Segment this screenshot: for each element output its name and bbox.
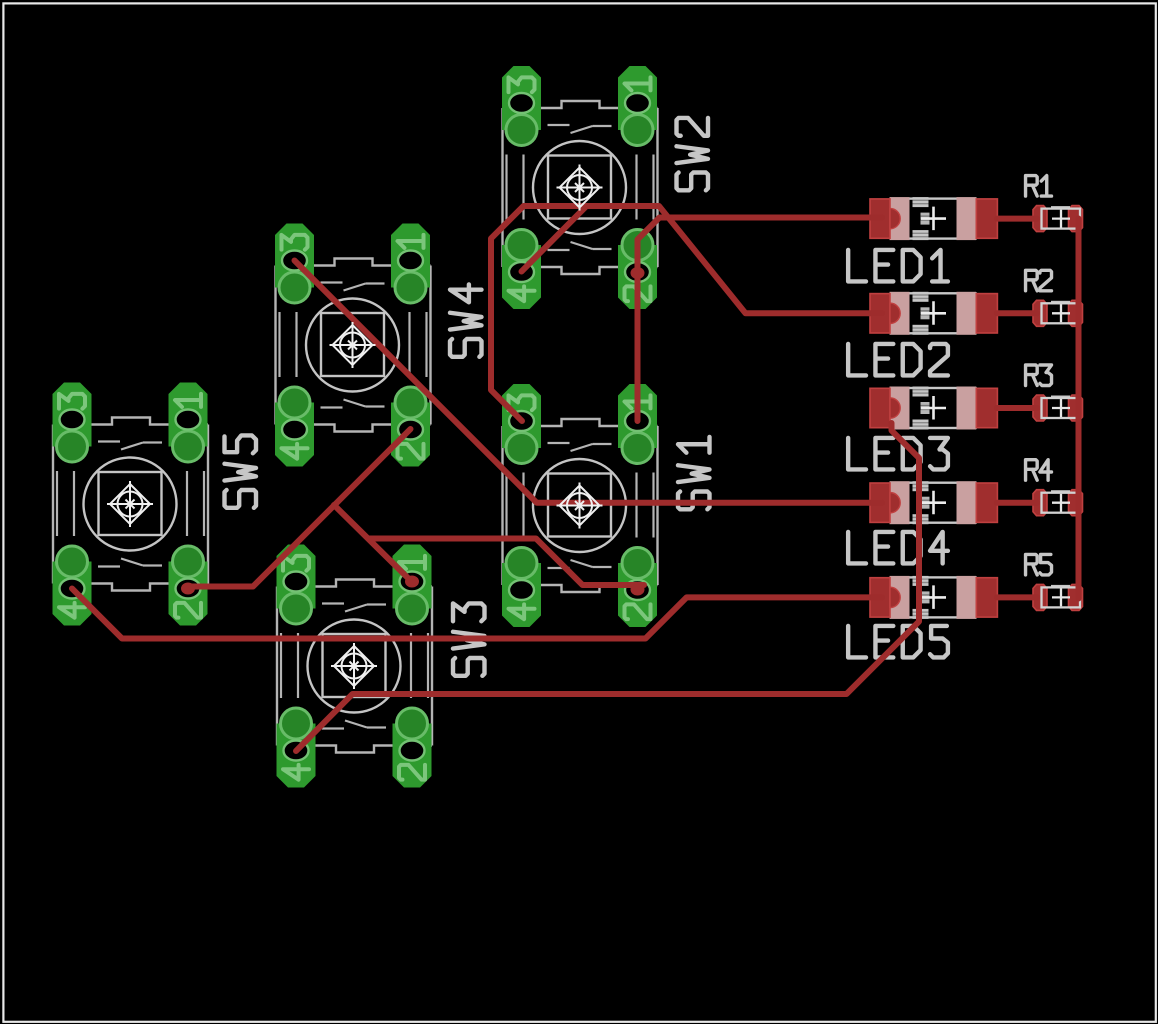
SW4 origin cross: [330, 322, 376, 368]
switch SW3 footprint (pads 1-4): [277, 545, 433, 788]
resistor R3 footprint: [1033, 395, 1083, 421]
label LED1: [848, 250, 948, 282]
wire SW5.4 diag to y638 horizontal, jog up to LED5: [72, 589, 882, 639]
label LED4: [848, 532, 948, 564]
label SW5: [225, 435, 257, 507]
resistor R4 footprint: [1033, 490, 1083, 516]
SW2 origin cross: [557, 165, 603, 211]
label SW2: [677, 118, 709, 190]
switch SW2 footprint (pads 1-4): [502, 66, 658, 309]
wire LED1 cathode to R1 left pad: [997, 216, 1037, 222]
label LED3: [848, 438, 948, 470]
switch SW5 footprint (pads 1-4): [53, 383, 209, 626]
SW1 origin cross: [557, 483, 603, 529]
LED LED1 footprint: [870, 197, 997, 240]
label R1: [1026, 176, 1052, 197]
switch SW4 footprint (pads 1-4): [275, 224, 431, 467]
label SW4: [450, 284, 482, 356]
wire SW5.2 horizontal then 45deg diagonal up to SW4.2: [186, 429, 411, 587]
wire LED3 cathode to R3 left pad: [997, 405, 1037, 411]
resistor R2 footprint: [1033, 300, 1083, 326]
junction fills at connected pad holes: [631, 267, 645, 279]
LED LED3 footprint: [870, 387, 997, 430]
wire SW1.3 diag up to vertical x491, up, to y206 horizontal, diag down to LED2: [491, 206, 882, 421]
wire branch diagonal from common down to SW3.1: [334, 505, 412, 582]
wire SW4.3 long 45deg diagonal to y504 horizontal through SW1 to LED4: [295, 261, 883, 503]
LED LED5 footprint: [870, 576, 997, 619]
label R4: [1026, 460, 1052, 481]
SW5 origin cross: [107, 481, 153, 527]
resistor R1 footprint: [1033, 206, 1083, 232]
label SW1: [678, 437, 710, 509]
label LED5: [848, 626, 948, 658]
LED LED4 footprint: [870, 481, 997, 524]
label LED2: [848, 344, 948, 376]
label R3: [1026, 365, 1052, 386]
wire LED2 cathode to R2 left pad: [997, 310, 1037, 316]
wire LED5 cathode to R5 left pad: [997, 594, 1037, 600]
SW5 pin numbers: [59, 394, 85, 409]
wire LED4 cathode to R4 left pad: [997, 500, 1037, 506]
SW1 pin numbers: [509, 395, 535, 410]
SW3 pin numbers: [283, 556, 309, 571]
SW2 pin numbers: [509, 77, 535, 92]
label SW3: [453, 603, 485, 675]
wire LED3 cathode down, vertical x919, diag to y694 horizontal, diag to SW3.4: [296, 423, 919, 751]
label R2: [1026, 270, 1052, 291]
SW4 pin numbers: [282, 235, 308, 250]
wire SW1.1-SW2.2-LED1: vertical x637 up, jog to y217, horizontal to LED1 anode: [638, 218, 883, 422]
SW3 origin cross: [331, 643, 377, 689]
label R5: [1026, 554, 1052, 575]
wire SW2.4 stub diagonal to y206 trace: [522, 206, 587, 272]
switch SW1 footprint (pads 1-4): [502, 384, 658, 627]
wire branch y538 horizontal, diag down to SW1.2: [369, 539, 645, 586]
LED LED2 footprint: [870, 292, 997, 335]
resistor R5 footprint: [1033, 584, 1083, 610]
wire common rail joining R1-R5 right pads: [1076, 219, 1082, 599]
